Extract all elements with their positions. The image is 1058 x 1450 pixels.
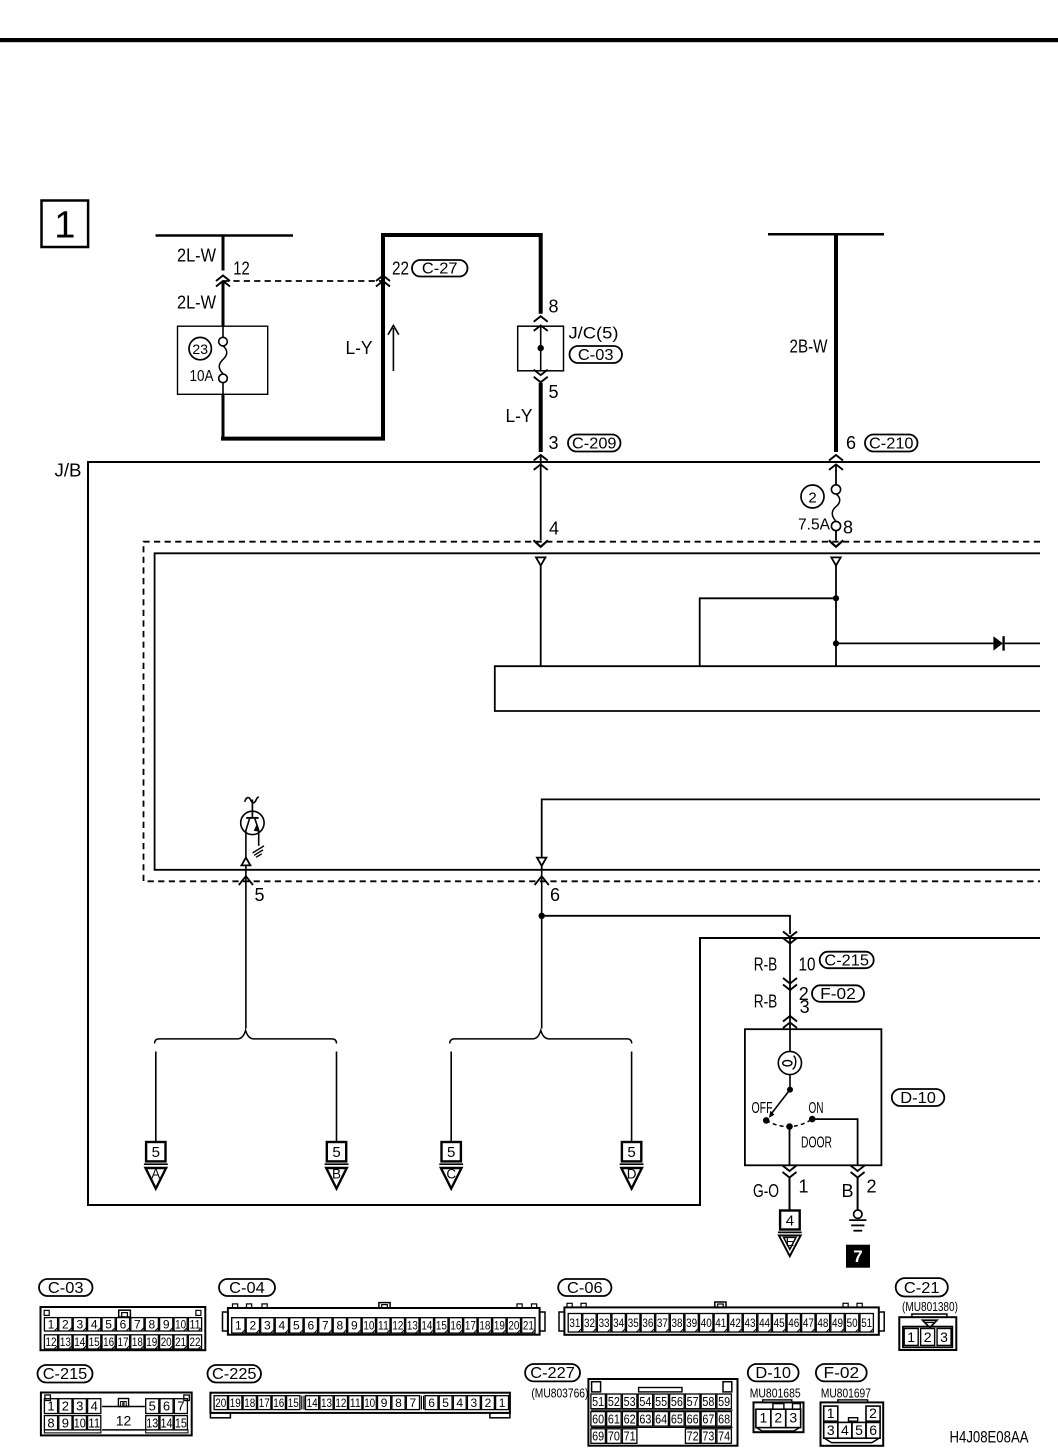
svg-text:32: 32 — [584, 1316, 595, 1330]
svg-text:MU801685: MU801685 — [750, 1386, 801, 1400]
svg-text:50: 50 — [847, 1316, 858, 1330]
svg-text:9: 9 — [381, 1396, 388, 1410]
dashed interconnect wire 12-22 — [223, 280, 383, 282]
svg-text:5: 5 — [254, 885, 264, 905]
connector table C-225 — [208, 1365, 262, 1383]
svg-text:C-27: C-27 — [422, 261, 458, 278]
internal wire from 4 — [540, 566, 542, 666]
svg-text:53: 53 — [624, 1394, 636, 1409]
svg-text:43: 43 — [744, 1316, 755, 1330]
svg-text:1: 1 — [827, 1405, 835, 1421]
diode — [993, 636, 1003, 650]
node triangle output 6 — [537, 858, 546, 866]
svg-text:14: 14 — [421, 1319, 432, 1333]
connector table C-21 — [896, 1278, 948, 1296]
svg-text:11: 11 — [350, 1396, 361, 1410]
svg-text:59: 59 — [718, 1394, 730, 1409]
svg-text:12: 12 — [335, 1396, 346, 1410]
svg-text:D-10: D-10 — [755, 1365, 791, 1382]
svg-text:3: 3 — [548, 433, 558, 453]
svg-text:18: 18 — [132, 1335, 143, 1349]
svg-text:15: 15 — [175, 1415, 187, 1430]
connector pin 12 chevrons — [216, 276, 230, 282]
svg-text:1: 1 — [907, 1329, 915, 1345]
section number 1 box — [42, 201, 89, 248]
svg-text:18: 18 — [244, 1396, 255, 1410]
connector ref F-02 — [812, 985, 864, 1002]
svg-text:65: 65 — [671, 1411, 683, 1426]
svg-text:12: 12 — [392, 1319, 403, 1333]
svg-text:C-227: C-227 — [530, 1365, 575, 1382]
brace split to C and D — [450, 1030, 632, 1043]
svg-text:7: 7 — [177, 1399, 184, 1414]
svg-text:F-02: F-02 — [824, 1365, 860, 1382]
svg-text:4: 4 — [91, 1318, 98, 1332]
svg-text:C-21: C-21 — [904, 1280, 940, 1297]
wire G-O to ground connector — [789, 1178, 791, 1211]
wire to D — [631, 1052, 633, 1142]
svg-text:74: 74 — [718, 1429, 730, 1444]
svg-text:10: 10 — [364, 1396, 375, 1410]
svg-text:20: 20 — [161, 1335, 172, 1349]
svg-text:2: 2 — [62, 1318, 69, 1332]
svg-text:4: 4 — [841, 1422, 849, 1438]
svg-text:33: 33 — [599, 1316, 610, 1330]
svg-text:4: 4 — [279, 1319, 286, 1333]
svg-text:L-Y: L-Y — [346, 338, 373, 358]
svg-text:39: 39 — [686, 1316, 697, 1330]
svg-text:21: 21 — [523, 1319, 534, 1333]
svg-text:40: 40 — [701, 1316, 712, 1330]
svg-text:68: 68 — [718, 1411, 730, 1426]
dome lamp pin 3 chevrons — [783, 1016, 797, 1022]
svg-text:7: 7 — [134, 1318, 141, 1332]
svg-text:22: 22 — [190, 1335, 201, 1349]
connector C-210 pin 6 chevrons — [829, 455, 843, 461]
svg-text:G-O: G-O — [753, 1181, 779, 1201]
svg-text:48: 48 — [817, 1316, 828, 1330]
svg-text:61: 61 — [608, 1411, 620, 1426]
svg-text:64: 64 — [655, 1411, 667, 1426]
svg-text:16: 16 — [103, 1335, 114, 1349]
svg-text:51: 51 — [861, 1316, 872, 1330]
wire to A — [155, 1052, 157, 1142]
wire L-Y to J/B — [539, 383, 543, 452]
svg-text:70: 70 — [608, 1429, 620, 1444]
svg-text:J/B: J/B — [55, 460, 82, 480]
svg-text:41: 41 — [715, 1316, 726, 1330]
connector table C-215 — [38, 1365, 93, 1383]
svg-text:14: 14 — [307, 1396, 318, 1410]
svg-text:18: 18 — [479, 1319, 490, 1333]
svg-text:10: 10 — [74, 1415, 86, 1430]
svg-text:67: 67 — [702, 1411, 714, 1426]
svg-text:E: E — [786, 1235, 794, 1249]
svg-text:17: 17 — [465, 1319, 476, 1333]
arrowhead into dashed unit — [534, 540, 548, 547]
svg-text:17: 17 — [259, 1396, 270, 1410]
svg-text:C-03: C-03 — [578, 347, 614, 364]
svg-text:46: 46 — [788, 1316, 799, 1330]
svg-text:10: 10 — [363, 1319, 374, 1333]
wire from junction to lamp feed — [542, 916, 790, 934]
svg-text:14: 14 — [161, 1415, 173, 1430]
svg-text:5: 5 — [149, 1399, 156, 1414]
J/C internal wire and node dot — [540, 326, 542, 371]
svg-text:C-215: C-215 — [824, 952, 869, 969]
svg-text:6: 6 — [308, 1319, 315, 1333]
svg-text:63: 63 — [639, 1411, 651, 1426]
svg-text:44: 44 — [759, 1316, 770, 1330]
svg-text:72: 72 — [687, 1429, 699, 1444]
svg-text:2: 2 — [808, 489, 816, 506]
svg-text:3: 3 — [800, 997, 810, 1017]
svg-text:2: 2 — [866, 1176, 876, 1196]
connector 5-A box — [146, 1142, 165, 1161]
svg-text:31: 31 — [569, 1316, 580, 1330]
svg-text:(MU803766): (MU803766) — [531, 1386, 588, 1400]
svg-text:11: 11 — [88, 1415, 100, 1430]
svg-text:7: 7 — [410, 1396, 417, 1410]
svg-text:D: D — [627, 1166, 637, 1181]
svg-text:1: 1 — [760, 1410, 768, 1426]
svg-text:R-B: R-B — [754, 991, 778, 1011]
svg-text:8: 8 — [148, 1318, 155, 1332]
svg-text:3: 3 — [471, 1396, 478, 1410]
node triangle output 5 — [241, 858, 250, 866]
svg-text:6: 6 — [846, 433, 856, 453]
connector D-10 pin 1 chevrons — [783, 1166, 797, 1172]
svg-text:12: 12 — [116, 1412, 132, 1428]
svg-text:49: 49 — [832, 1316, 843, 1330]
svg-text:13: 13 — [321, 1396, 332, 1410]
arrowhead into dashed unit right — [829, 540, 843, 547]
connector ref C-03 — [570, 346, 623, 363]
svg-text:1: 1 — [47, 1399, 54, 1414]
svg-text:8: 8 — [337, 1319, 344, 1333]
svg-text:15: 15 — [288, 1396, 299, 1410]
svg-text:12: 12 — [233, 258, 250, 278]
connector table C-227 — [525, 1364, 580, 1381]
switch contact DOOR — [786, 1123, 793, 1130]
svg-text:1: 1 — [54, 204, 75, 246]
ground (transistor emitter) — [253, 846, 264, 853]
connector table D-10 — [748, 1364, 799, 1381]
joint connector J/C(5) box — [518, 326, 564, 371]
svg-text:5: 5 — [332, 1144, 340, 1161]
internal control unit box — [495, 666, 1040, 711]
svg-text:6: 6 — [869, 1422, 877, 1438]
connector C-03 pin 5 chevrons — [534, 370, 548, 376]
wire from fuse output — [222, 394, 225, 438]
svg-text:55: 55 — [655, 1394, 667, 1409]
svg-text:2L-W: 2L-W — [177, 245, 216, 265]
connector 5-C box — [442, 1142, 461, 1161]
svg-text:5: 5 — [105, 1318, 112, 1332]
svg-text:42: 42 — [730, 1316, 741, 1330]
connector ref C-215 — [820, 952, 874, 969]
svg-text:1: 1 — [235, 1319, 242, 1333]
connector triangle A — [144, 1163, 168, 1165]
svg-text:20: 20 — [215, 1396, 226, 1410]
svg-text:1: 1 — [798, 1176, 808, 1196]
svg-text:2: 2 — [924, 1329, 932, 1345]
svg-text:13: 13 — [60, 1335, 71, 1349]
svg-text:A: A — [151, 1166, 160, 1181]
svg-text:35: 35 — [628, 1316, 639, 1330]
connector C-27 pin 22 chevrons — [376, 276, 390, 282]
svg-text:2: 2 — [250, 1319, 257, 1333]
bus bar (power feed) right — [768, 233, 884, 236]
svg-text:13: 13 — [407, 1319, 418, 1333]
svg-text:DOOR: DOOR — [801, 1135, 832, 1152]
svg-text:52: 52 — [608, 1394, 620, 1409]
switch contact OFF — [763, 1117, 770, 1124]
svg-text:69: 69 — [592, 1429, 604, 1444]
wire to fuse 2 — [835, 464, 837, 484]
svg-text:19: 19 — [494, 1319, 505, 1333]
svg-text:51: 51 — [592, 1394, 604, 1409]
svg-text:2B-W: 2B-W — [790, 336, 828, 356]
wire L-Y thick run up-over — [221, 235, 541, 439]
connector C-03 pin 8 chevrons — [534, 316, 548, 322]
fuse number circled 23 — [189, 337, 211, 359]
svg-text:C-209: C-209 — [572, 436, 617, 453]
svg-text:3: 3 — [789, 1410, 797, 1426]
svg-text:36: 36 — [642, 1316, 653, 1330]
junction dot on wire 6 — [539, 913, 545, 919]
body ground symbol — [854, 1210, 862, 1218]
svg-text:73: 73 — [702, 1429, 714, 1444]
svg-text:8: 8 — [843, 517, 853, 537]
svg-text:1: 1 — [48, 1318, 55, 1332]
svg-text:10: 10 — [175, 1318, 186, 1332]
wire ON contact to right down — [812, 1119, 857, 1165]
wire to C — [450, 1052, 452, 1142]
switch travel dashed arc — [766, 1119, 812, 1127]
internal wire from 8 — [835, 566, 837, 666]
svg-text:19: 19 — [230, 1396, 241, 1410]
svg-text:60: 60 — [592, 1411, 604, 1426]
svg-text:5: 5 — [442, 1396, 449, 1410]
svg-text:8: 8 — [47, 1415, 54, 1430]
svg-text:(MU801380): (MU801380) — [902, 1300, 958, 1314]
switch arm — [772, 1090, 791, 1114]
wire B to body ground — [857, 1178, 859, 1211]
svg-text:45: 45 — [774, 1316, 785, 1330]
svg-text:2: 2 — [62, 1399, 69, 1414]
svg-text:6: 6 — [428, 1396, 435, 1410]
svg-text:13: 13 — [146, 1415, 158, 1430]
connector table C-03 — [39, 1279, 93, 1296]
svg-text:2: 2 — [774, 1410, 782, 1426]
connector ref C-210 — [865, 435, 918, 452]
svg-text:OFF: OFF — [752, 1100, 773, 1117]
svg-text:3: 3 — [76, 1318, 83, 1332]
svg-text:4: 4 — [91, 1399, 98, 1414]
svg-text:10A: 10A — [190, 368, 214, 385]
fuse 23 housing box — [178, 326, 268, 394]
connector 5-B box — [327, 1142, 346, 1161]
svg-text:12: 12 — [46, 1335, 57, 1349]
connector table C-04 — [219, 1279, 275, 1296]
svg-text:14: 14 — [74, 1335, 85, 1349]
connector C-209 pin 3 chevrons — [534, 455, 548, 461]
svg-text:C-225: C-225 — [212, 1366, 257, 1383]
svg-text:11: 11 — [190, 1318, 201, 1332]
svg-text:10: 10 — [799, 954, 816, 974]
svg-text:C-04: C-04 — [229, 1280, 265, 1297]
connector ref D-10 — [892, 1089, 945, 1106]
internal branch wire — [700, 598, 836, 666]
internal wire to diode — [836, 642, 993, 644]
connector table C-06 — [558, 1279, 611, 1296]
junction block J/B outline — [88, 462, 1040, 1205]
svg-text:5: 5 — [152, 1144, 160, 1161]
wire 6 out of J/B unit — [541, 870, 543, 1029]
svg-text:B: B — [332, 1166, 341, 1181]
switch contact ON — [809, 1116, 816, 1123]
ground connector triangle E — [778, 1231, 802, 1233]
lamp bulb — [778, 1051, 801, 1074]
svg-text:22: 22 — [392, 258, 409, 278]
node triangle input 8 — [831, 557, 840, 565]
node triangle input 4 — [536, 557, 545, 565]
connector F-02 pin 2 chevrons — [783, 978, 797, 984]
svg-text:5: 5 — [855, 1422, 863, 1438]
transistor Q — [241, 811, 264, 834]
wire lamp to switch — [789, 1075, 791, 1090]
connector D-10 pin 2 chevrons — [851, 1166, 865, 1172]
svg-text:15: 15 — [89, 1335, 100, 1349]
junction dot A — [833, 595, 839, 601]
bus bar (power feed) left — [156, 234, 294, 237]
svg-text:C-210: C-210 — [869, 436, 914, 453]
svg-text:7: 7 — [853, 1247, 862, 1266]
connector table F-02 — [816, 1364, 867, 1381]
svg-text:R-B: R-B — [754, 954, 778, 974]
svg-text:3: 3 — [264, 1319, 271, 1333]
svg-text:11: 11 — [378, 1319, 389, 1333]
connector triangle D — [620, 1163, 644, 1165]
svg-text:C-03: C-03 — [48, 1280, 84, 1297]
ground connector box 4 — [780, 1211, 800, 1230]
svg-text:3: 3 — [940, 1329, 948, 1345]
svg-text:58: 58 — [702, 1394, 714, 1409]
svg-text:2: 2 — [485, 1396, 492, 1410]
svg-text:56: 56 — [671, 1394, 683, 1409]
svg-text:L-Y: L-Y — [506, 406, 533, 426]
wire into J/B from pin 3 — [540, 455, 542, 540]
svg-text:7: 7 — [322, 1319, 329, 1333]
svg-text:8: 8 — [548, 296, 558, 316]
svg-text:16: 16 — [273, 1396, 284, 1410]
svg-text:H4J08E08AA: H4J08E08AA — [950, 1427, 1030, 1446]
svg-text:ON: ON — [809, 1100, 824, 1117]
svg-text:7.5A: 7.5A — [798, 517, 830, 534]
svg-text:37: 37 — [657, 1316, 668, 1330]
connector ref C-27 — [412, 260, 468, 277]
svg-text:5: 5 — [548, 382, 558, 402]
connector triangle C — [439, 1163, 463, 1165]
svg-text:4: 4 — [549, 518, 559, 538]
svg-text:5: 5 — [293, 1319, 300, 1333]
svg-text:J/C(5): J/C(5) — [569, 323, 619, 342]
wire 2B-W — [834, 234, 838, 452]
svg-text:2: 2 — [869, 1405, 877, 1421]
svg-text:2L-W: 2L-W — [177, 292, 216, 312]
svg-text:6: 6 — [550, 885, 560, 905]
wire to B — [336, 1052, 338, 1142]
svg-text:9: 9 — [351, 1319, 358, 1333]
svg-text:3: 3 — [76, 1399, 83, 1414]
svg-text:F-02: F-02 — [820, 986, 856, 1003]
svg-text:1: 1 — [499, 1396, 506, 1410]
connector C-215 pin 10 chevrons — [783, 932, 797, 938]
lamp feed wire — [789, 1029, 791, 1051]
svg-text:47: 47 — [803, 1316, 814, 1330]
fuse 2 element — [831, 485, 840, 494]
internal output wire — [542, 799, 1040, 857]
svg-text:D-10: D-10 — [900, 1090, 936, 1107]
svg-text:9: 9 — [62, 1415, 69, 1430]
svg-text:3: 3 — [827, 1422, 835, 1438]
wire below fuse 2 — [835, 531, 837, 541]
svg-text:66: 66 — [687, 1411, 699, 1426]
svg-text:6: 6 — [163, 1399, 170, 1414]
svg-text:C-215: C-215 — [43, 1366, 88, 1383]
svg-text:5: 5 — [627, 1144, 635, 1161]
svg-text:16: 16 — [450, 1319, 461, 1333]
svg-text:23: 23 — [192, 341, 208, 357]
svg-text:71: 71 — [624, 1429, 636, 1444]
svg-text:6: 6 — [120, 1318, 127, 1332]
connector triangle B — [325, 1163, 349, 1165]
wire 2L-W into fuse box — [222, 281, 225, 326]
svg-text:8: 8 — [395, 1396, 402, 1410]
current direction arrow up — [392, 328, 394, 371]
svg-text:21: 21 — [175, 1335, 186, 1349]
svg-text:17: 17 — [118, 1335, 129, 1349]
wire DOOR contact down — [789, 1127, 791, 1166]
svg-text:5: 5 — [447, 1144, 455, 1161]
svg-text:20: 20 — [508, 1319, 519, 1333]
J/B internal unit solid boundary — [155, 553, 1040, 870]
wire 2L-W vertical from bus bar — [222, 236, 225, 271]
fuse number circled 2 — [801, 485, 824, 508]
svg-text:B: B — [841, 1181, 853, 1201]
svg-text:C-06: C-06 — [567, 1280, 603, 1297]
junction dot B — [833, 640, 839, 646]
connector 5-D box — [622, 1142, 641, 1161]
svg-text:62: 62 — [624, 1411, 636, 1426]
svg-text:38: 38 — [672, 1316, 683, 1330]
fuse 23 element — [222, 326, 224, 337]
svg-text:34: 34 — [613, 1316, 624, 1330]
dome lamp D-10 box — [745, 1029, 882, 1165]
svg-text:MU801697: MU801697 — [821, 1386, 871, 1400]
svg-text:57: 57 — [687, 1394, 699, 1409]
svg-text:4: 4 — [786, 1213, 794, 1230]
ground reference 7 black box — [846, 1245, 870, 1268]
svg-text:19: 19 — [146, 1335, 157, 1349]
svg-text:15: 15 — [436, 1319, 447, 1333]
brace split to A and B — [155, 1030, 337, 1043]
svg-text:9: 9 — [163, 1318, 170, 1332]
J/B internal unit dashed boundary — [144, 542, 1041, 882]
connector ref C-209 — [568, 435, 621, 452]
svg-text:C: C — [446, 1166, 456, 1181]
